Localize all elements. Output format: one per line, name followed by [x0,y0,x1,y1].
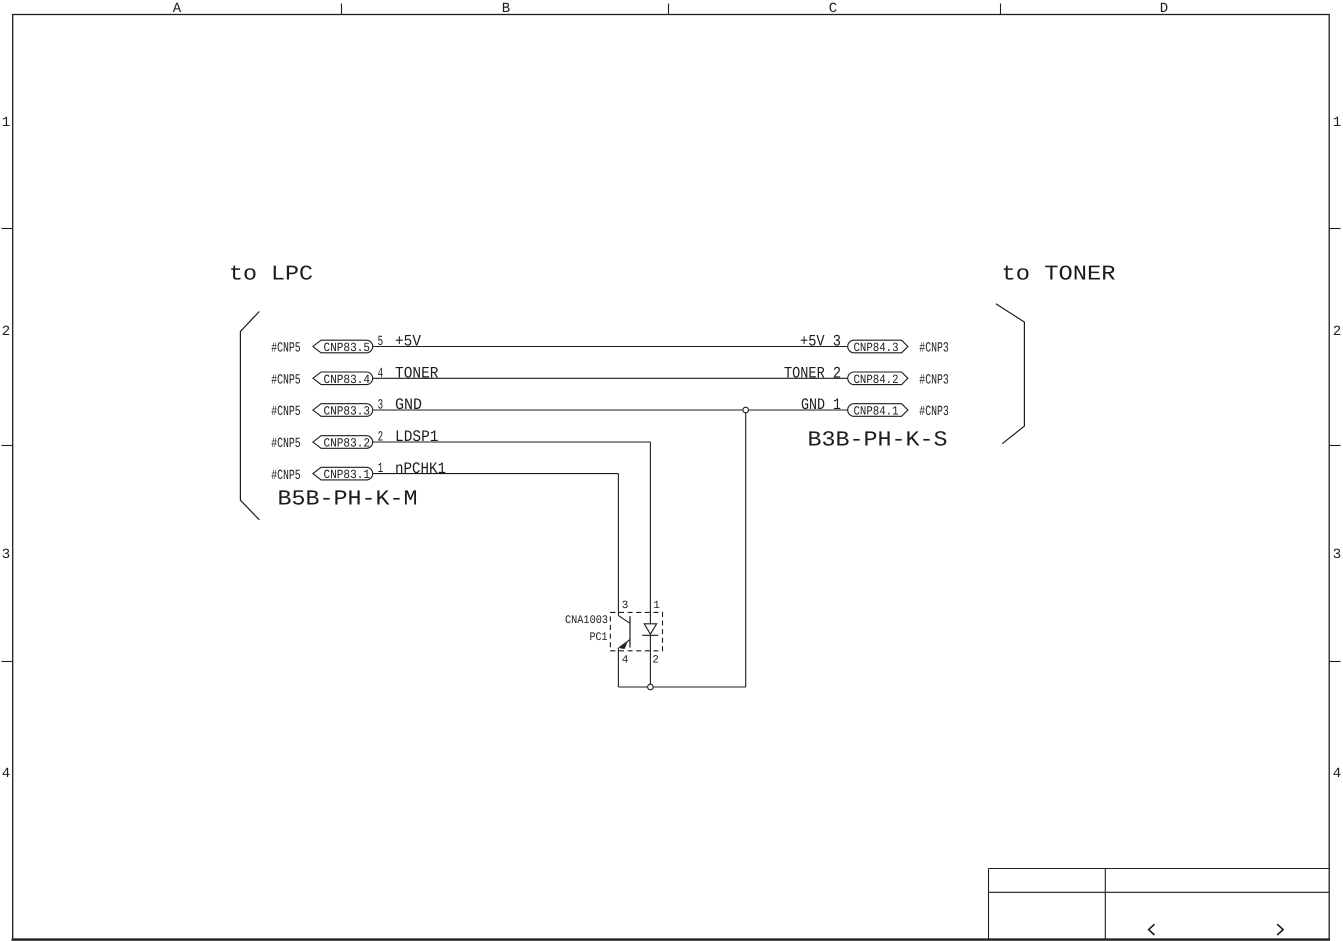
svg-text:CNP83.3: CNP83.3 [324,405,371,419]
svg-text:1: 1 [2,115,10,131]
svg-text:CNP83.2: CNP83.2 [324,437,371,451]
svg-text:+5V 3: +5V 3 [800,333,841,351]
svg-text:#CNP3: #CNP3 [919,341,949,357]
connector CNP3 bracket [996,304,1025,444]
svg-text:GND: GND [395,396,422,414]
svg-text:GND 1: GND 1 [801,396,841,414]
wire TONER [373,377,848,379]
port tag CNP84.3 [848,340,908,355]
port tag CNP83.3 [313,404,373,419]
svg-text:B3B-PH-K-S: B3B-PH-K-S [808,429,948,453]
title block chevron right [1277,924,1283,935]
LED of PC1 [642,624,658,687]
svg-text:LDSP1: LDSP1 [395,428,439,446]
svg-text:1: 1 [378,461,384,477]
svg-text:2: 2 [378,430,384,446]
svg-text:1: 1 [1333,115,1341,131]
svg-text:#CNP5: #CNP5 [271,404,301,420]
wire pin4 down [617,648,619,687]
connector CNP5 bracket [240,312,259,520]
svg-text:B: B [502,1,510,17]
svg-text:1: 1 [653,600,660,612]
wire nPCHK1 vertical [617,474,619,616]
svg-text:2: 2 [1333,324,1341,340]
svg-text:TONER: TONER [395,365,439,383]
svg-text:2: 2 [2,324,10,340]
svg-text:3: 3 [622,600,629,612]
svg-text:4: 4 [622,655,629,667]
port tag CNP83.5 [313,340,373,355]
optocoupler PC1 dashed body [610,612,662,650]
port tag CNP84.2 [848,372,908,387]
svg-text:to LPC: to LPC [229,264,313,287]
wire LDSP1 horizontal [373,441,651,443]
phototransistor emitter lead with arrow [619,640,630,649]
port tag CNP83.4 [313,372,373,387]
svg-text:#CNP5: #CNP5 [271,341,301,357]
svg-text:#CNP3: #CNP3 [919,404,949,420]
svg-text:C: C [829,1,837,17]
port tag CNP83.1 [313,467,373,482]
svg-text:#CNP5: #CNP5 [271,436,301,452]
svg-text:3: 3 [1333,547,1341,563]
svg-text:A: A [173,1,182,17]
wire bottom horizontal [618,686,745,688]
junction node on GND wire [743,407,749,413]
svg-text:4: 4 [378,366,384,382]
title block chevron left [1149,924,1155,935]
svg-text:CNP83.1: CNP83.1 [324,468,371,482]
svg-text:#CNP5: #CNP5 [271,468,301,484]
phototransistor body bar [629,616,631,648]
wire GND [373,409,848,411]
svg-text:CNP83.5: CNP83.5 [324,341,371,355]
svg-text:nPCHK1: nPCHK1 [395,460,446,478]
svg-text:CNA1003: CNA1003 [565,614,608,627]
svg-text:4: 4 [1333,766,1341,782]
svg-text:#CNP3: #CNP3 [919,373,949,389]
svg-text:5: 5 [378,334,384,350]
wire up to GND net [745,410,747,687]
wire LDSP1 vertical [649,442,651,624]
svg-text:to TONER: to TONER [1002,264,1116,287]
junction node at pin2 [648,684,654,690]
svg-text:4: 4 [2,766,10,782]
phototransistor collector lead [618,616,630,624]
svg-text:2: 2 [652,655,659,667]
svg-text:CNP84.2: CNP84.2 [854,373,899,387]
svg-text:3: 3 [378,398,384,414]
svg-text:CNP84.3: CNP84.3 [854,341,899,355]
svg-text:D: D [1160,1,1168,17]
svg-text:+5V: +5V [395,333,421,351]
svg-text:TONER 2: TONER 2 [784,365,841,383]
wire nPCHK1 horizontal [373,473,619,475]
svg-text:PC1: PC1 [590,631,608,644]
svg-text:3: 3 [2,547,10,563]
svg-text:CNP83.4: CNP83.4 [324,373,371,387]
svg-text:CNP84.1: CNP84.1 [854,405,899,419]
title block [989,869,1330,940]
wire +5V [373,346,848,348]
port tag CNP84.1 [848,404,908,419]
svg-text:#CNP5: #CNP5 [271,373,301,389]
port tag CNP83.2 [313,436,373,451]
svg-text:B5B-PH-K-M: B5B-PH-K-M [278,488,418,512]
